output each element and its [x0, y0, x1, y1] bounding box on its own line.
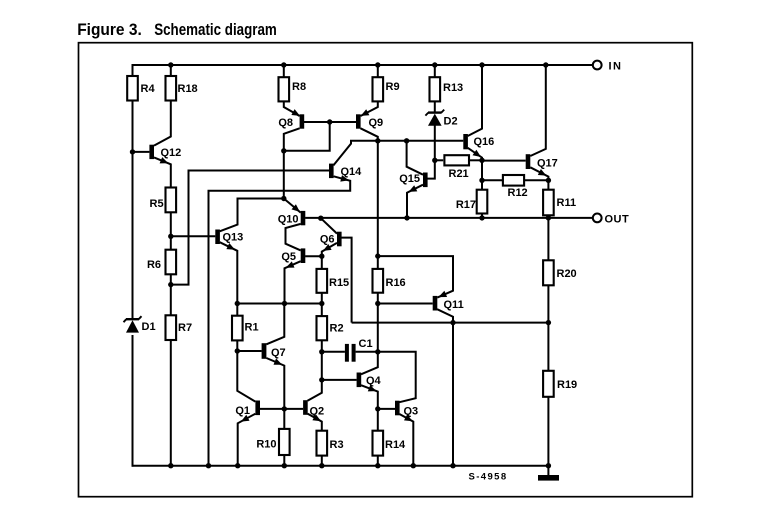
svg-text:Q15: Q15	[399, 173, 420, 185]
node Q8 collector tie	[281, 148, 286, 153]
zener diode D2	[425, 110, 457, 128]
ground symbol	[538, 475, 559, 481]
resistor R3	[317, 431, 344, 456]
wire Q8 base to Q9 base	[304, 121, 356, 123]
svg-text:R14: R14	[385, 439, 406, 451]
node ground symbol junction	[546, 463, 551, 468]
node ground Q3 emitter	[411, 463, 416, 468]
wire Q7 emitter column to R10	[266, 358, 284, 429]
wire R9 top stub	[377, 65, 379, 77]
svg-text:Figure 3.: Figure 3.	[77, 21, 142, 39]
terminal OUT	[593, 214, 629, 226]
wire Q1 emitter to ground	[238, 414, 256, 466]
wire R19 bottom to ground symbol	[547, 397, 549, 476]
svg-text:C1: C1	[359, 338, 373, 350]
wire Q13 base	[171, 235, 216, 237]
wire R1 bottom to Q7 base	[236, 340, 238, 351]
node Q12 base tap	[130, 149, 135, 154]
node Q4 base Q2 collector	[319, 377, 324, 382]
resistor R21 horizontal	[444, 155, 469, 180]
node R16 bottom Q11 base	[375, 301, 380, 306]
svg-text:R15: R15	[329, 277, 349, 289]
node R5 R6 junction	[168, 234, 173, 239]
wire R14 column	[377, 409, 379, 431]
transistor Q10	[278, 204, 306, 225]
wire Q9 collector down long column to R16	[361, 128, 378, 256]
transistor Q7	[262, 343, 286, 365]
transistor Q1	[235, 401, 260, 422]
resistor R6	[147, 250, 176, 275]
wire R17 column	[481, 160, 483, 189]
svg-text:Q1: Q1	[235, 405, 250, 417]
node top rail Q17	[543, 62, 548, 67]
node top rail Q16	[479, 62, 484, 67]
node R6 R7 junction	[168, 282, 173, 287]
svg-text:R2: R2	[330, 323, 344, 335]
wire R2 bottom to C1 left	[322, 340, 345, 352]
node Q1 Q2 base R10	[282, 406, 287, 411]
wire Q6 emitter down to R15 junction	[322, 243, 337, 256]
wire Q3 emitter to ground	[399, 414, 413, 466]
wire R3 bottom to ground	[321, 456, 323, 466]
node Q9 collector bus	[375, 138, 380, 143]
wire Q8 base-collector tie	[284, 122, 330, 151]
node ground Q14 return	[206, 463, 211, 468]
wire Q13 emitter to R1	[220, 242, 238, 316]
wire R12 left lead	[482, 179, 503, 181]
wire R6 bottom riser to Q14 base	[171, 171, 329, 285]
wire R11 bottom to OUT rail	[547, 215, 549, 218]
wire R17 bottom to OUT rail	[481, 214, 483, 218]
svg-text:Q5: Q5	[281, 251, 296, 263]
resistor R1	[232, 316, 259, 341]
resistor R17	[456, 190, 487, 214]
wire R16 top to Q11 collector L	[378, 256, 453, 298]
transistor Q8	[278, 109, 304, 129]
resistor R15	[317, 269, 350, 293]
resistor R19	[543, 371, 577, 397]
resistor R20	[543, 260, 577, 285]
svg-text:D1: D1	[142, 321, 156, 333]
wire Q6 base to feedback column	[342, 238, 352, 323]
wire Q17 emitter to R11	[530, 167, 548, 189]
node Q8 Q9 base tie	[327, 119, 332, 124]
wire Q3 base	[378, 408, 395, 410]
svg-text:Q17: Q17	[537, 158, 558, 170]
wire Q16 emitter junction	[468, 148, 482, 161]
svg-text:Q9: Q9	[369, 117, 384, 129]
node Q10 emitter junction	[281, 196, 286, 201]
wire Q6 collector to OUT rail	[321, 218, 337, 233]
svg-text:R11: R11	[557, 197, 577, 209]
node Q15 emitter on OUT rail	[404, 215, 409, 220]
wire R20 to R19 divider	[547, 285, 549, 371]
wire Q5 emitter column	[285, 261, 301, 303]
node R17 on OUT rail	[479, 215, 484, 220]
node R16 top	[375, 253, 380, 258]
wire R6 to R7	[170, 274, 172, 315]
wire feedback rail to divider junction	[352, 322, 549, 324]
node R2 bottom C1 left	[319, 349, 324, 354]
wire R5 to R6	[170, 212, 172, 249]
node R21 left tap	[432, 158, 437, 163]
svg-text:Q7: Q7	[271, 347, 286, 359]
svg-text:R6: R6	[147, 259, 161, 271]
svg-text:Q11: Q11	[444, 299, 464, 311]
resistor R14	[373, 431, 407, 456]
node ground R10	[282, 463, 287, 468]
svg-text:Q4: Q4	[366, 375, 382, 387]
transistor Q4	[357, 373, 382, 392]
transistor Q2	[303, 400, 324, 421]
node ground R14	[375, 463, 380, 468]
capacitor C1	[345, 338, 373, 362]
wire Q5 base to R15 top	[305, 255, 322, 257]
wire R8 top stub	[283, 65, 285, 77]
svg-text:Q8: Q8	[278, 117, 293, 129]
node Q5 base R15 top	[319, 254, 324, 259]
node Q3 base Q4 emitter	[375, 406, 380, 411]
wire R9 bottom to Q9 emitter	[361, 101, 378, 116]
node top rail R8	[281, 62, 286, 67]
wire R18 top stub	[170, 65, 172, 76]
svg-text:R4: R4	[141, 83, 156, 95]
resistor R8	[279, 77, 307, 101]
svg-text:Q10: Q10	[278, 214, 299, 226]
resistor R11	[543, 190, 576, 216]
svg-text:R1: R1	[245, 322, 259, 334]
wire R8 bottom to Q8 emitter	[284, 101, 300, 116]
svg-text:Q6: Q6	[320, 234, 335, 246]
svg-text:R13: R13	[443, 82, 463, 94]
svg-text:R21: R21	[449, 168, 469, 180]
transistor Q15	[399, 173, 427, 192]
terminal IN	[593, 61, 623, 73]
transistor Q3	[395, 401, 418, 422]
zener diode D1	[124, 316, 156, 333]
svg-text:R10: R10	[256, 439, 276, 451]
wire R18 bottom to Q12 collector	[154, 101, 171, 146]
wire D1 bottom to ground rail	[132, 335, 134, 467]
svg-text:OUT: OUT	[605, 214, 630, 226]
svg-text:R8: R8	[292, 81, 306, 93]
wire Q4 emitter to Q3 base junction	[361, 385, 378, 409]
transistor Q6	[320, 232, 342, 251]
wire Q13 collector riser	[220, 199, 284, 232]
resistor R13	[430, 77, 464, 101]
node ground R3	[319, 463, 324, 468]
node top rail R9	[375, 62, 380, 67]
node Q16 emitter junction	[479, 158, 484, 163]
wire Q4 base column	[322, 352, 357, 380]
wire Q12 emitter to R5	[154, 157, 171, 187]
resistor R18	[166, 76, 198, 101]
transistor Q12	[149, 145, 181, 164]
svg-text:Q3: Q3	[404, 406, 419, 418]
wire R14 bottom to ground	[377, 456, 379, 466]
wire C1 right to Q3 collector riser	[356, 352, 416, 402]
wire OUT rail	[305, 217, 593, 219]
wire R7 to ground rail	[170, 340, 172, 466]
wire Q17 collector to rail	[530, 65, 546, 156]
node Q13 emitter R1	[235, 301, 240, 306]
resistor R12 horizontal	[503, 175, 528, 199]
node ground R7	[168, 463, 173, 468]
wire R21 right lead	[469, 159, 482, 161]
wire R1 column to Q1 collector	[237, 351, 255, 402]
svg-text:R16: R16	[386, 277, 406, 289]
wire Q1 base / Q2 base rail	[260, 408, 304, 410]
node Q6 collector on OUT rail	[318, 216, 323, 221]
wire Q14 emitter return to ground	[209, 176, 351, 465]
resistor R5	[150, 188, 177, 213]
node Q5 emitter Q7 collector	[282, 301, 287, 306]
transistor Q16	[463, 134, 494, 157]
wire R12 right lead	[524, 179, 548, 181]
wire Q15 emitter to OUT rail	[407, 185, 423, 218]
wire Q15 collector riser	[407, 141, 423, 175]
wire R21 left lead	[435, 159, 443, 161]
wire OUT rail to R20	[547, 218, 549, 260]
node Q11 emitter rail cross	[450, 320, 455, 325]
transistor Q5	[281, 248, 305, 267]
wire R15 to R2	[321, 293, 323, 316]
node ground Q1 emitter	[235, 463, 240, 468]
svg-text:Q16: Q16	[474, 136, 495, 148]
resistor R7	[166, 315, 193, 340]
svg-text:R12: R12	[508, 187, 528, 199]
wire Q11 emitter to ground	[437, 309, 453, 466]
resistor R10	[256, 429, 289, 455]
wire R13 top stub	[434, 65, 436, 77]
node Q17 emitter R12	[546, 178, 551, 183]
node C1 right junction	[375, 349, 380, 354]
node R12 left tap	[479, 178, 484, 183]
node Q15 collector bus	[404, 138, 409, 143]
node divider R20 R19	[546, 320, 551, 325]
node ground Q11 emitter	[450, 463, 455, 468]
svg-text:R3: R3	[330, 439, 344, 451]
svg-text:R7: R7	[178, 322, 192, 334]
wire R15 bottom junction column	[321, 256, 323, 269]
svg-text:D2: D2	[444, 116, 458, 128]
node R15 R2 junction	[319, 301, 324, 306]
resistor R9	[373, 77, 400, 101]
wire D2 bottom to Q15 base	[427, 126, 434, 179]
resistor R4	[127, 76, 155, 101]
svg-text:R9: R9	[386, 81, 400, 93]
svg-text:IN: IN	[609, 61, 623, 73]
wire Q17 base	[482, 160, 526, 162]
wire R13 bottom to D2	[434, 101, 436, 112]
svg-text:Q12: Q12	[161, 147, 182, 159]
wire Q8 collector column	[284, 128, 300, 198]
wire long bus Q14 collector to Q16 base	[333, 141, 463, 166]
wire top supply rail	[133, 64, 593, 66]
svg-text:R19: R19	[557, 379, 577, 391]
wire R10 bottom to ground	[283, 455, 285, 466]
wire Q2 emitter to R3	[308, 414, 322, 431]
svg-text:S-4958: S-4958	[469, 472, 508, 483]
transistor Q17	[526, 154, 558, 175]
svg-text:Q13: Q13	[223, 232, 244, 244]
transistor Q9	[356, 109, 383, 129]
resistor R16	[373, 269, 406, 293]
figure frame	[79, 43, 693, 497]
svg-text:R17: R17	[456, 199, 476, 211]
resistor R2	[317, 316, 344, 340]
wire Q4 collector to C1 junction	[361, 352, 378, 375]
wire Q12 base	[133, 151, 150, 153]
svg-text:R5: R5	[150, 198, 164, 210]
svg-text:Schematic diagram: Schematic diagram	[154, 21, 277, 39]
svg-text:R20: R20	[557, 268, 577, 280]
wire ground rail	[132, 465, 549, 467]
node top rail R13	[432, 62, 437, 67]
wire Q10 collector to Q5 collector	[286, 224, 301, 251]
wire R4 bottom to Q12 base to D1 column	[132, 101, 134, 319]
transistor Q11	[433, 291, 464, 311]
svg-text:Q14: Q14	[341, 166, 363, 178]
svg-text:Q2: Q2	[310, 406, 325, 418]
wire Q10 emitter junction wire	[284, 199, 301, 213]
wire R4 top stub	[132, 64, 134, 76]
wire R16 bottom to C1 junction	[377, 293, 379, 352]
wire Q7 collector riser	[266, 304, 284, 345]
transistor Q14	[329, 164, 362, 182]
transistor Q13	[215, 230, 243, 250]
wire Q2 collector riser	[308, 380, 322, 401]
wire error bus Q13 emitter to R15 R2 junction	[237, 303, 321, 305]
wire Q11 base	[378, 303, 433, 305]
node R1 bottom Q7 base	[235, 348, 240, 353]
node top rail R18	[168, 62, 173, 67]
svg-text:R18: R18	[178, 83, 198, 95]
wire Q16 collector to rail	[468, 65, 482, 136]
node R11 on OUT rail	[546, 215, 551, 220]
